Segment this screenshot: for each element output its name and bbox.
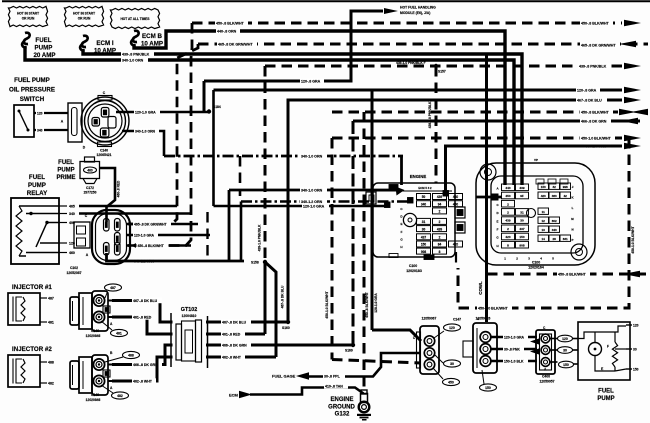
svg-text:12059067: 12059067	[422, 317, 437, 321]
svg-text:462-.8 WHT: 462-.8 WHT	[222, 355, 242, 359]
cowl boundary dash	[455, 252, 457, 268]
svg-text:8: 8	[439, 250, 441, 254]
svg-text:12020164: 12020164	[528, 266, 544, 270]
svg-text:S169: S169	[345, 349, 353, 353]
svg-text:FUEL PUMP: FUEL PUMP	[14, 77, 50, 84]
wire 450-.8 BLK/WHT dashed top	[192, 22, 622, 25]
svg-text:461-.8 RED: 461-.8 RED	[133, 315, 152, 319]
svg-text:12004810: 12004810	[182, 314, 197, 318]
svg-text:84: 84	[438, 243, 442, 247]
node S158	[263, 260, 267, 264]
svg-text:31: 31	[422, 220, 426, 224]
svg-text:340-1.0 ORN: 340-1.0 ORN	[122, 58, 144, 62]
svg-text:INJECTOR #1: INJECTOR #1	[12, 284, 52, 291]
svg-text:ECM 5 3 2: ECM 5 3 2	[418, 186, 432, 190]
svg-text:PUMP: PUMP	[57, 168, 74, 174]
svg-text:450-.8 BLK/WHT: 450-.8 BLK/WHT	[216, 21, 245, 25]
svg-text:120: 120	[37, 111, 43, 115]
svg-text:150: 150	[421, 243, 427, 247]
injector #2 coil box	[8, 355, 40, 387]
wire 466-.8 DK GRN right	[353, 120, 640, 123]
svg-text:ECM B: ECM B	[142, 33, 162, 40]
wire 461/462 feed from S158	[264, 262, 267, 334]
svg-text:FUEL: FUEL	[29, 174, 45, 181]
wire 340 dashed vertical link	[239, 156, 242, 196]
svg-text:30: 30	[633, 348, 637, 352]
svg-text:420: 420	[453, 243, 459, 247]
fuel pump motor M	[589, 343, 602, 356]
svg-text:467-.8 DK BLU: 467-.8 DK BLU	[133, 299, 158, 303]
svg-text:11: 11	[542, 210, 546, 214]
svg-text:465-.8 DK GRN/WHT: 465-.8 DK GRN/WHT	[134, 222, 168, 226]
wire 120-1.0 GRA to engine connector	[214, 205, 387, 208]
node S160	[286, 320, 290, 324]
svg-text:42: 42	[564, 194, 568, 198]
svg-text:H: H	[400, 245, 402, 249]
wire 120-.8 GRA to ECM right	[214, 89, 623, 92]
svg-text:150: 150	[563, 363, 569, 367]
svg-text:120: 120	[562, 337, 568, 341]
svg-text:20 AMP: 20 AMP	[33, 52, 55, 59]
svg-text:340: 340	[69, 212, 75, 216]
svg-text:PRIME: PRIME	[56, 175, 75, 181]
wire 439-1.0 PNK/BLK drop to injectors	[264, 66, 267, 262]
svg-text:HOT FUEL HANDLING: HOT FUEL HANDLING	[400, 6, 436, 10]
svg-text:450-1.0 BLK/WHT: 450-1.0 BLK/WHT	[631, 226, 635, 253]
svg-text:E: E	[497, 219, 499, 223]
border top edge	[2, 0, 650, 2]
wire 461-.8 RED injector 1	[112, 317, 265, 334]
svg-text:F: F	[401, 230, 403, 234]
svg-text:F: F	[497, 228, 499, 232]
grommet GT102	[173, 318, 207, 365]
svg-text:12: 12	[542, 219, 546, 223]
wire 440-1.0 ORN from engine C100	[446, 146, 623, 194]
connector C146 injector #1	[70, 297, 79, 325]
svg-text:998: 998	[563, 185, 568, 189]
svg-text:465-.8 DK GRN/WHT: 465-.8 DK GRN/WHT	[218, 42, 253, 46]
connector C100 cowl side	[476, 163, 595, 265]
wire 450-.8 BLK/WHT lower dashed	[487, 273, 648, 276]
fuel pump sender resistor	[612, 342, 617, 367]
wire thick cowl C100 left entry	[476, 196, 502, 199]
svg-text:2977250: 2977250	[84, 191, 97, 195]
relay pin labels	[59, 205, 67, 207]
node S184	[207, 109, 211, 113]
svg-text:GT102: GT102	[181, 307, 197, 313]
svg-text:S158: S158	[251, 261, 259, 265]
svg-text:450: 450	[448, 380, 454, 384]
svg-text:450: 450	[453, 202, 459, 206]
svg-text:S157: S157	[438, 70, 446, 74]
wire 340 from switch	[34, 129, 68, 131]
relay coil	[16, 206, 22, 256]
engine C100 right tabs	[455, 207, 465, 218]
wire 340 dashed end square	[408, 198, 414, 204]
svg-text:120-1.0 GRA: 120-1.0 GRA	[374, 293, 378, 313]
wire 450-.8 BLK/WHT vertical center	[363, 112, 366, 388]
svg-text:461-.8 RED: 461-.8 RED	[222, 332, 241, 336]
svg-text:31: 31	[520, 211, 524, 215]
svg-text:C102: C102	[70, 266, 78, 270]
svg-text:120-.8 GRA: 120-.8 GRA	[301, 79, 321, 83]
svg-text:ECM: ECM	[229, 393, 239, 398]
svg-text:COWL: COWL	[478, 281, 483, 295]
svg-text:482: 482	[117, 394, 123, 398]
svg-text:94: 94	[438, 202, 442, 206]
wire dashed vertical near C102	[206, 212, 208, 261]
wire 340-1.0 ORN to engine connector	[229, 189, 398, 192]
svg-text:488: 488	[48, 361, 54, 365]
svg-text:C147: C147	[453, 318, 461, 322]
svg-text:C172: C172	[86, 186, 94, 190]
svg-text:450-1.0 BLK/WHT: 450-1.0 BLK/WHT	[581, 136, 612, 140]
connector C140 body	[68, 103, 82, 142]
svg-text:C146: C146	[91, 393, 99, 397]
svg-text:340: 340	[421, 202, 427, 206]
oil pressure switch S1	[14, 105, 34, 137]
svg-text:150: 150	[541, 185, 546, 189]
svg-text:SWITCH: SWITCH	[20, 96, 45, 103]
svg-text:L: L	[572, 206, 574, 210]
C400 ovals	[558, 335, 573, 342]
svg-text:439-1.0 PNK/BLK F: 439-1.0 PNK/BLK F	[396, 61, 426, 65]
wire thick cowl vertical to bottom connector	[485, 54, 488, 322]
wire 340 arrow into engine C100	[400, 156, 403, 185]
svg-text:HOT IN START: HOT IN START	[17, 12, 39, 16]
svg-text:440: 440	[505, 186, 510, 190]
svg-text:465: 465	[69, 205, 75, 209]
svg-text:482: 482	[48, 382, 54, 386]
svg-text:13: 13	[542, 228, 546, 232]
svg-text:S160: S160	[282, 326, 290, 330]
wire 340-1.2 ORN dash-dot to engine connector	[241, 200, 408, 203]
svg-text:440: 440	[453, 195, 459, 199]
wire 340-1.0 ORN dash-dot mid	[164, 155, 403, 158]
svg-text:30: 30	[450, 362, 454, 366]
svg-text:340-1.0 ORN: 340-1.0 ORN	[301, 188, 323, 192]
svg-text:466-.8 DK GRN: 466-.8 DK GRN	[133, 363, 158, 367]
node S169	[351, 343, 355, 347]
svg-text:PUMP: PUMP	[28, 182, 46, 189]
svg-text:C400: C400	[542, 375, 550, 379]
svg-text:150: 150	[519, 235, 524, 239]
wire 460-.8 RED from prime	[99, 168, 115, 222]
svg-text:2: 2	[439, 236, 441, 240]
svg-text:340: 340	[552, 228, 557, 232]
svg-text:420: 420	[505, 235, 510, 239]
svg-text:437: 437	[421, 236, 427, 240]
svg-text:HOT IN START: HOT IN START	[73, 12, 95, 16]
svg-text:120: 120	[633, 324, 639, 328]
wire 450-.8 BLK/WHT dashed mid	[332, 111, 618, 114]
wire 466-.8 DK GRN vertical	[352, 121, 355, 345]
svg-text:487: 487	[48, 297, 54, 301]
svg-text:N: N	[571, 227, 573, 231]
svg-text:2: 2	[507, 202, 509, 206]
svg-text:467-.8 DK BLU: 467-.8 DK BLU	[281, 285, 285, 308]
hot-at-all-times box	[110, 8, 159, 28]
fuse FUEL PUMP 20 AMP	[24, 33, 30, 44]
svg-text:F: F	[607, 345, 609, 349]
svg-text:450-.8 BLK/WHT: 450-.8 BLK/WHT	[581, 21, 610, 25]
svg-text:INJECTOR #2: INJECTOR #2	[12, 346, 52, 353]
svg-text:120-1.0 GRA: 120-1.0 GRA	[134, 233, 155, 237]
svg-text:481: 481	[116, 331, 122, 335]
engine C100 left tab	[366, 192, 376, 204]
wire 439-.8 PNK/BLK dashed to ECM	[265, 65, 622, 68]
connector C146 injector #2	[70, 361, 79, 389]
svg-text:340-1.0 ORN: 340-1.0 ORN	[301, 154, 323, 158]
svg-text:450-1.0 BLK/WHT: 450-1.0 BLK/WHT	[325, 291, 329, 318]
svg-text:PUMP: PUMP	[597, 396, 614, 402]
svg-text:488: 488	[128, 353, 134, 357]
svg-text:ENGINE: ENGINE	[330, 397, 353, 403]
wire 439-.8 PNK/BLK from ECM I fuse	[83, 49, 522, 185]
svg-text:439: 439	[505, 219, 510, 223]
svg-text:466-.8 DK GRN: 466-.8 DK GRN	[222, 343, 247, 347]
svg-text:150-1.0 BLK: 150-1.0 BLK	[504, 359, 524, 363]
wire 120 vertical from S184	[212, 90, 215, 206]
svg-text:487: 487	[110, 286, 116, 290]
svg-text:439-.8 PNK/BLK: 439-.8 PNK/BLK	[122, 52, 150, 56]
svg-text:120: 120	[449, 326, 455, 330]
oval 150 below 12059426	[480, 384, 497, 391]
svg-text:30: 30	[563, 348, 567, 352]
injector #2 pins	[40, 361, 47, 363]
svg-text:439: 439	[437, 195, 443, 199]
relay K1 box	[11, 198, 59, 264]
injector #1 pins	[40, 297, 47, 299]
svg-text:12052087: 12052087	[66, 271, 81, 275]
svg-text:32: 32	[553, 185, 557, 189]
connector C172 fuel pump prime	[85, 157, 95, 162]
fuse ECM I 10 AMP	[82, 36, 88, 47]
svg-text:466-.8 DK GRN: 466-.8 DK GRN	[581, 119, 607, 123]
svg-text:462-.8 WHT: 462-.8 WHT	[133, 379, 153, 383]
svg-text:50: 50	[422, 195, 426, 199]
wire 465-.8 DK GRN/WHT from C102	[126, 223, 198, 226]
wire 120-.8 GRA to hot fuel module	[203, 81, 206, 112]
svg-text:30: 30	[422, 227, 426, 231]
svg-text:120-1.0 GRA: 120-1.0 GRA	[303, 204, 325, 208]
svg-text:OR RUN: OR RUN	[78, 17, 91, 21]
svg-text:FUEL: FUEL	[58, 160, 74, 166]
hot-in-start box 2	[64, 6, 103, 26]
svg-text:467-.8 DK BLU: 467-.8 DK BLU	[222, 320, 247, 324]
svg-text:ECM I: ECM I	[96, 40, 113, 47]
svg-text:465-.8 DK GRN/WHT: 465-.8 DK GRN/WHT	[581, 43, 616, 47]
wire 467-.8 DK BLU to ECM	[288, 100, 622, 322]
svg-text:E: E	[400, 222, 402, 226]
wire 340-1.0 ORN from C140	[122, 131, 164, 156]
svg-text:9F: 9F	[520, 194, 524, 198]
wire 120-1.0 GRA from C102	[126, 234, 210, 237]
svg-text:2: 2	[439, 220, 441, 224]
svg-text:439: 439	[437, 227, 443, 231]
svg-text:C100: C100	[532, 261, 540, 265]
svg-text:30-.8 PNK: 30-.8 PNK	[504, 347, 520, 351]
svg-text:FUEL: FUEL	[598, 389, 614, 395]
wire 465 dashed vertical left	[128, 44, 198, 224]
hot-in-start box 1	[8, 6, 47, 26]
svg-text:D: D	[496, 211, 498, 215]
svg-text:460: 460	[87, 168, 93, 172]
svg-text:419-.8 TAN: 419-.8 TAN	[325, 384, 343, 388]
svg-text:2: 2	[507, 227, 509, 231]
svg-text:439-1.0 PNK/BLK: 439-1.0 PNK/BLK	[258, 224, 262, 251]
svg-text:450-.8 BLK/WHT: 450-.8 BLK/WHT	[365, 292, 369, 317]
injector #1 coil box	[8, 293, 40, 325]
svg-text:467-.8 DK BLU: 467-.8 DK BLU	[577, 98, 602, 102]
svg-text:439-1.0 PNK/BLK: 439-1.0 PNK/BLK	[428, 101, 432, 128]
svg-text:460-.8 RED: 460-.8 RED	[117, 180, 121, 197]
connector C102 body	[74, 222, 90, 248]
svg-text:8: 8	[507, 243, 509, 247]
svg-text:120-1.0 GRA: 120-1.0 GRA	[135, 110, 156, 114]
svg-text:H: H	[496, 244, 498, 248]
svg-text:120-1.0 GRA: 120-1.0 GRA	[504, 335, 525, 339]
node S157	[434, 64, 438, 68]
relay contacts	[26, 205, 59, 207]
svg-text:450-1.0 BLK/WHT: 450-1.0 BLK/WHT	[478, 306, 509, 310]
wire 450-.8 BLK/WHT from C102	[126, 244, 191, 247]
wire 120-1.0 GRA from C140	[116, 111, 209, 114]
wire 440-.8 ORN from ECM B fuse	[134, 31, 505, 185]
svg-text:HOT AT ALL TIMES: HOT AT ALL TIMES	[120, 17, 149, 21]
svg-text:12059057: 12059057	[539, 380, 554, 384]
svg-text:C140: C140	[100, 149, 108, 153]
svg-text:450-.8 BLK/WHT: 450-.8 BLK/WHT	[581, 110, 610, 114]
svg-text:450-.8 BLK/WHT: 450-.8 BLK/WHT	[138, 244, 165, 248]
svg-text:602: 602	[552, 219, 557, 223]
wire 120 from switch	[34, 112, 68, 114]
svg-text:12020183: 12020183	[406, 269, 422, 273]
svg-text:C146: C146	[91, 329, 99, 333]
svg-text:120-.8 GRA: 120-.8 GRA	[577, 88, 597, 92]
svg-text:460: 460	[69, 251, 75, 255]
wire 440-1.0 ORN right	[624, 143, 641, 150]
wire 340-1.0 ORN from fuel pump fuse	[25, 46, 514, 185]
svg-text:OR RUN: OR RUN	[22, 17, 35, 21]
wire 120-1.0 GRA to C147	[372, 330, 421, 341]
svg-text:GROUND: GROUND	[328, 405, 355, 411]
wire relay 465 to bus	[79, 205, 177, 207]
ground symbol	[357, 414, 371, 416]
wire 120 end square	[385, 202, 391, 208]
wire 450 dashed vertical left	[128, 23, 192, 246]
wire 450-1.0 dashed to connector pin	[332, 360, 421, 364]
svg-text:150: 150	[633, 368, 639, 372]
svg-text:908: 908	[519, 243, 524, 247]
fuel pump assembly box	[578, 322, 630, 380]
svg-text:OIL PRESSURE: OIL PRESSURE	[9, 87, 55, 94]
svg-text:631: 631	[563, 237, 568, 241]
svg-text:360: 360	[552, 194, 557, 198]
svg-text:28: 28	[553, 237, 557, 241]
svg-text:12020846: 12020846	[86, 334, 101, 338]
svg-text:340-1.0 ORN: 340-1.0 ORN	[135, 129, 156, 133]
wire 466-.8 DK GRN injector 2	[112, 345, 353, 365]
svg-text:481: 481	[48, 321, 54, 325]
svg-text:ENGINE: ENGINE	[410, 174, 427, 179]
fuse ECM B 10 AMP	[133, 31, 139, 42]
svg-text:PUMP: PUMP	[35, 45, 53, 52]
fuel pump internal wiring	[578, 326, 626, 339]
wire relay 340 to bus	[79, 212, 191, 214]
wire 462-.8 WHT injector 2	[112, 357, 276, 381]
wire 450-1.0 BLK/WHT dashed right	[332, 137, 622, 140]
svg-text:340: 340	[37, 128, 43, 132]
svg-text:FUEL GAGE: FUEL GAGE	[272, 374, 296, 379]
svg-text:439: 439	[519, 186, 524, 190]
wires 12059426 to C400	[491, 336, 537, 338]
wire 120-1.0 GRA vertical center	[371, 90, 374, 330]
wire 467-.8 DK BLU injector 1	[112, 301, 288, 323]
wire 465-.8 DK GRN/WHT dashed	[198, 43, 648, 46]
svg-text:2: 2	[439, 210, 441, 214]
svg-text:14: 14	[542, 237, 546, 241]
svg-text:P: P	[572, 238, 574, 242]
svg-text:12020846: 12020846	[86, 398, 101, 402]
svg-text:VP: VP	[534, 158, 538, 162]
wire 439-1.0 PNK/BLK drop to C100 engine	[435, 66, 438, 183]
svg-text:437: 437	[519, 227, 524, 231]
svg-text:FUEL: FUEL	[35, 37, 51, 44]
svg-text:12065421: 12065421	[96, 153, 111, 157]
svg-text:G132: G132	[335, 412, 350, 418]
svg-text:440-.8 ORN: 440-.8 ORN	[217, 29, 237, 33]
svg-text:MODULE (E6), J/A): MODULE (E6), J/A)	[400, 11, 430, 15]
wire 450-1.0 BLK/WHT center vertical	[331, 138, 334, 360]
svg-text:450-.8 BLK/WHT: 450-.8 BLK/WHT	[558, 272, 587, 276]
engine C100 bottom band	[389, 254, 398, 258]
svg-text:439-.8 PNK/BLK: 439-.8 PNK/BLK	[579, 64, 607, 68]
svg-text:RELAY: RELAY	[27, 190, 48, 197]
connector C400	[536, 330, 555, 374]
svg-text:420: 420	[541, 194, 546, 198]
svg-text:30-.8 PPL: 30-.8 PPL	[324, 374, 341, 378]
svg-text:908: 908	[421, 250, 427, 254]
svg-text:450: 450	[505, 194, 510, 198]
svg-text:C100: C100	[409, 264, 417, 268]
wire 450-1.0 BLK/WHT right vertical	[458, 138, 629, 308]
svg-text:2: 2	[507, 211, 509, 215]
svg-text:30: 30	[520, 219, 524, 223]
wire 340-1.2 ORN from C102	[133, 258, 158, 263]
svg-text:150: 150	[485, 386, 491, 390]
